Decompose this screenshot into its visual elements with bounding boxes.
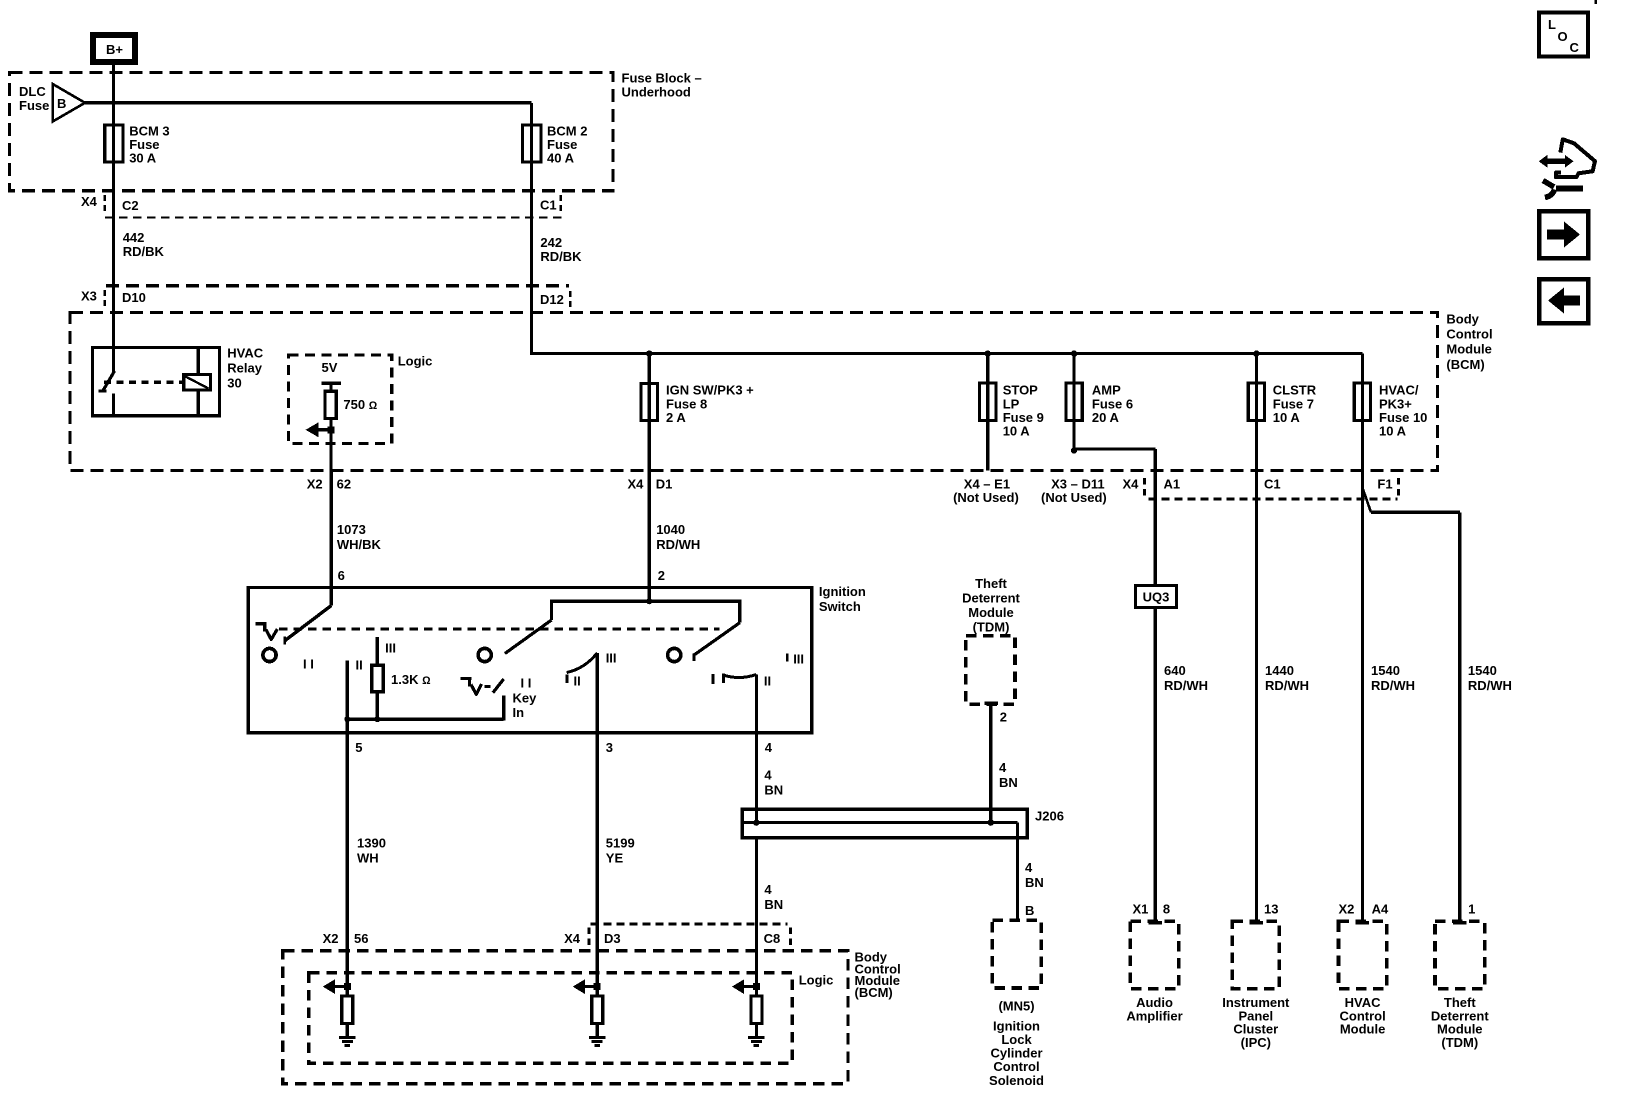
- svg-text:X2: X2: [307, 477, 323, 492]
- ground BCM D3: [589, 1038, 606, 1046]
- svg-text:62: 62: [337, 477, 351, 492]
- svg-text:640: 640: [1164, 663, 1186, 678]
- wire AMP fuse elbow to A1: [1071, 447, 1155, 585]
- svg-text:(IPC): (IPC): [1241, 1035, 1271, 1050]
- fuse IGN SW/PK3+ Fuse 8 2A: [641, 354, 754, 471]
- svg-text:1.3K Ω: 1.3K Ω: [391, 672, 431, 687]
- svg-text:III: III: [793, 652, 804, 667]
- icon harness routing: [1539, 139, 1595, 197]
- svg-text:Deterrent: Deterrent: [962, 591, 1020, 606]
- svg-text:Logic: Logic: [398, 354, 433, 369]
- svg-text:RD/BK: RD/BK: [123, 244, 165, 259]
- ignition switch pole 2 blade: [505, 600, 552, 654]
- svg-text:(MN5): (MN5): [998, 999, 1034, 1014]
- icon arrow back: [1539, 279, 1588, 323]
- svg-text:(TDM): (TDM): [1441, 1035, 1478, 1050]
- connector X4 pin A1: [1123, 476, 1181, 497]
- ignition switch pole 1 contact ring: [263, 648, 276, 661]
- svg-text:RD/WH: RD/WH: [656, 537, 700, 552]
- wire TDM pin 2 4 BN: [991, 704, 1018, 822]
- wire pin 4: [755, 675, 758, 733]
- svg-text:1073: 1073: [337, 522, 366, 537]
- ignition switch key-in blade: [493, 679, 504, 693]
- connector X4 pin D1: [628, 477, 673, 492]
- wire contact II to pin 5: [347, 658, 362, 733]
- svg-text:J206: J206: [1035, 809, 1064, 824]
- svg-text:30 A: 30 A: [129, 151, 157, 166]
- main BCM feed bus wire: [532, 286, 1363, 355]
- svg-text:C: C: [1570, 40, 1580, 55]
- svg-text:In: In: [513, 705, 525, 720]
- svg-text:II: II: [356, 658, 363, 673]
- node 5V supply: [322, 360, 341, 391]
- connector X2 pin 62: [307, 477, 351, 492]
- connector X4 pin D3: [564, 928, 621, 947]
- svg-text:B: B: [1025, 903, 1034, 918]
- wire pin 3: [597, 651, 616, 733]
- svg-text:(Not Used): (Not Used): [953, 490, 1019, 505]
- svg-text:X4: X4: [81, 194, 98, 209]
- svg-text:HVAC: HVAC: [227, 346, 263, 361]
- svg-text:Relay: Relay: [227, 361, 262, 376]
- svg-text:Body: Body: [1446, 312, 1479, 327]
- logic dashed box bottom: [309, 973, 834, 1064]
- svg-text:6: 6: [338, 568, 345, 583]
- svg-text:DLC: DLC: [19, 84, 46, 99]
- svg-text:56: 56: [354, 931, 368, 946]
- svg-text:C1: C1: [540, 198, 557, 213]
- wire 1540 RD/WH label HVAC: [1371, 663, 1415, 693]
- ground BCM 56: [339, 1038, 356, 1046]
- fuse HVAC/PK3+ Fuse 10 10A: [1354, 354, 1427, 922]
- svg-text:1: 1: [1468, 902, 1475, 917]
- svg-text:13: 13: [1264, 902, 1278, 917]
- connector pin F1 BCM: [1377, 476, 1398, 497]
- resistor 750 ohm: [325, 391, 378, 418]
- label MN5 ignition lock cylinder control solenoid: [989, 999, 1044, 1089]
- svg-text:2: 2: [1000, 710, 1007, 725]
- connector X3-D11 not used: [1041, 476, 1107, 505]
- svg-text:10 A: 10 A: [1273, 410, 1301, 425]
- svg-text:Ignition: Ignition: [819, 584, 866, 599]
- svg-text:10 A: 10 A: [1379, 424, 1407, 439]
- wire D10 into relay: [112, 286, 115, 373]
- svg-text:4: 4: [764, 768, 772, 783]
- svg-text:750 Ω: 750 Ω: [343, 397, 377, 412]
- fuse STOP LP Fuse 9 10A: [980, 354, 1044, 471]
- wire 242 RD/BK: [532, 191, 583, 286]
- svg-text:Control: Control: [1446, 327, 1492, 342]
- svg-text:Module: Module: [1446, 342, 1492, 357]
- connector X3 heavy dashed strip: [106, 284, 569, 288]
- svg-text:Switch: Switch: [819, 599, 861, 614]
- contact arc to pin 3: [567, 653, 598, 689]
- svg-text:5: 5: [355, 740, 362, 755]
- svg-text:1540: 1540: [1371, 663, 1400, 678]
- svg-text:(TDM): (TDM): [973, 620, 1010, 635]
- svg-text:4: 4: [765, 740, 773, 755]
- ignition switch box: [248, 584, 866, 733]
- svg-text:I I: I I: [303, 657, 314, 672]
- body control module BCM dashed box: [70, 313, 1438, 471]
- label body control module BCM: [1446, 312, 1492, 372]
- svg-text:Solenoid: Solenoid: [989, 1073, 1044, 1088]
- connector X2 pin 56: [323, 931, 369, 946]
- node B+ battery terminal: [93, 35, 135, 62]
- svg-text:BN: BN: [999, 775, 1018, 790]
- module instrument panel cluster dashed box: [1222, 921, 1290, 1050]
- resistor 1.3K ohm: [372, 637, 431, 719]
- svg-text:O: O: [1558, 29, 1568, 44]
- resistor BCM pull-down C8: [751, 987, 762, 1037]
- node junction AMP fuse: [1071, 350, 1077, 356]
- icon LOC box: [1539, 0, 1596, 57]
- wire 4 BN J206 to MN5: [1018, 823, 1044, 921]
- node contacts I III right: [787, 652, 804, 667]
- svg-text:40 A: 40 A: [547, 151, 575, 166]
- svg-text:III: III: [385, 641, 396, 656]
- svg-text:X3: X3: [81, 289, 97, 304]
- DLC fuse triangle symbol: [19, 84, 85, 122]
- splice J206: [742, 809, 1064, 838]
- node junction CLSTR fuse: [1253, 350, 1259, 356]
- node logic input arrow D3: [573, 979, 601, 994]
- fuse BCM 3 30A: [105, 103, 170, 191]
- svg-text:1540: 1540: [1468, 663, 1497, 678]
- label fuse block: [622, 71, 702, 100]
- wire key-in bus: [344, 696, 503, 723]
- node logic input arrow C8: [732, 979, 760, 994]
- resistor BCM pull-down D3: [592, 987, 603, 1037]
- ground BCM C8: [748, 1038, 765, 1046]
- svg-text:10 A: 10 A: [1003, 424, 1031, 439]
- svg-text:X2: X2: [1339, 902, 1355, 917]
- svg-text:4: 4: [1025, 860, 1033, 875]
- ignition switch mechanical link dashed: [279, 627, 719, 630]
- connector dashed strip A1-F1: [1149, 497, 1398, 500]
- svg-text:30: 30: [227, 376, 241, 391]
- wire 1440 RD/WH label: [1265, 663, 1309, 693]
- svg-text:5V: 5V: [322, 360, 338, 375]
- svg-text:A4: A4: [1372, 902, 1389, 917]
- svg-text:L: L: [1548, 17, 1556, 32]
- svg-text:Amplifier: Amplifier: [1126, 1008, 1182, 1023]
- svg-text:(BCM): (BCM): [1446, 357, 1484, 372]
- module HVAC control module dashed box: [1339, 921, 1387, 1036]
- svg-text:(Not Used): (Not Used): [1041, 490, 1107, 505]
- svg-text:442: 442: [123, 230, 145, 245]
- wire 1540 RD/WH label TDM: [1468, 663, 1512, 693]
- fuse block underhood dashed box: [9, 72, 613, 190]
- svg-text:X4: X4: [1123, 476, 1140, 491]
- wire 4 BN pin 4 to J206: [756, 733, 783, 823]
- relay HVAC Relay 30: [93, 346, 264, 416]
- svg-text:WH/BK: WH/BK: [337, 537, 382, 552]
- svg-text:4: 4: [764, 882, 772, 897]
- wire DLC to BCM2 drop: [85, 101, 532, 104]
- label theft deterrent module TDM top: [962, 576, 1020, 635]
- svg-text:YE: YE: [606, 851, 624, 866]
- wire 1390 WH pin 5: [347, 733, 386, 987]
- svg-text:X4 – E1: X4 – E1: [964, 476, 1010, 491]
- solenoid MN5 dashed box: [992, 920, 1041, 988]
- connector X2 pin A4: [1339, 902, 1389, 917]
- connector pin C1: [540, 195, 561, 213]
- svg-text:Fuse Block –: Fuse Block –: [622, 71, 702, 86]
- svg-text:F1: F1: [1377, 476, 1392, 491]
- svg-text:III: III: [606, 651, 617, 666]
- svg-text:Module: Module: [1340, 1022, 1386, 1037]
- svg-text:WH: WH: [357, 851, 379, 866]
- wire B+ to BCM 3 fuse: [112, 65, 115, 125]
- svg-text:RD/WH: RD/WH: [1371, 678, 1415, 693]
- fuse CLSTR Fuse 7 10A: [1248, 354, 1317, 922]
- svg-text:1440: 1440: [1265, 663, 1294, 678]
- svg-text:Theft: Theft: [975, 576, 1007, 591]
- svg-text:D3: D3: [604, 931, 621, 946]
- svg-text:4: 4: [999, 760, 1007, 775]
- node junction at B+ wire: [111, 100, 116, 105]
- svg-text:II: II: [574, 674, 581, 689]
- connector X3 pin D10: [81, 289, 146, 308]
- wire 1073 WH/BK: [331, 471, 381, 606]
- svg-text:1040: 1040: [656, 522, 685, 537]
- svg-text:BN: BN: [1025, 875, 1044, 890]
- svg-text:D10: D10: [122, 290, 146, 305]
- module TDM dashed box top: [966, 636, 1015, 705]
- svg-text:RD/BK: RD/BK: [540, 249, 582, 264]
- svg-text:Fuse: Fuse: [19, 98, 49, 113]
- svg-text:X4: X4: [564, 931, 581, 946]
- node logic junction with arrow: [306, 422, 335, 437]
- svg-text:D12: D12: [540, 292, 564, 307]
- module audio amplifier dashed box: [1126, 921, 1182, 1023]
- connector X4 pin C2: [81, 194, 139, 213]
- node contacts I I pole 1: [303, 657, 314, 672]
- ignition switch pole 3 contact ring: [668, 648, 681, 661]
- wire 5199 YE pin 3: [597, 733, 635, 987]
- connector pin C8: [764, 928, 791, 947]
- connector UQ3 option box: [1136, 586, 1177, 608]
- connector X1 pin 8: [1133, 902, 1171, 917]
- svg-text:A1: A1: [1164, 476, 1181, 491]
- ignition switch pole 2 contact ring: [478, 648, 491, 661]
- svg-text:Logic: Logic: [799, 973, 834, 988]
- svg-text:RD/WH: RD/WH: [1265, 678, 1309, 693]
- svg-text:Key: Key: [513, 691, 538, 706]
- svg-text:B+: B+: [106, 42, 123, 57]
- node logic input arrow 56: [323, 979, 351, 994]
- ignition switch pole 3 blade: [694, 600, 740, 661]
- svg-text:20 A: 20 A: [1092, 410, 1120, 425]
- svg-text:BN: BN: [764, 897, 783, 912]
- svg-text:8: 8: [1163, 902, 1170, 917]
- svg-text:X3 – D11: X3 – D11: [1051, 476, 1105, 491]
- connector X4 dashed strip D3-C8: [591, 922, 788, 925]
- ignition switch pole 1 blade: [285, 606, 332, 645]
- svg-text:RD/WH: RD/WH: [1468, 678, 1512, 693]
- label key in: [513, 691, 538, 721]
- svg-text:5199: 5199: [606, 836, 635, 851]
- svg-text:X1: X1: [1133, 902, 1149, 917]
- svg-text:C8: C8: [764, 931, 781, 946]
- wire branch F1 to TDM: [1363, 489, 1460, 921]
- ignition switch feed bus pin 2: [552, 598, 740, 604]
- svg-text:2 A: 2 A: [666, 410, 686, 425]
- svg-text:(BCM): (BCM): [855, 985, 893, 1000]
- svg-text:BN: BN: [764, 783, 783, 798]
- connector X4-E1 not used: [953, 476, 1019, 505]
- wire 442 RD/BK: [113, 191, 164, 286]
- svg-text:I I: I I: [521, 676, 532, 691]
- logic dashed box with 750 ohm pull-up: [289, 354, 433, 444]
- wire 4 BN J206 to C8: [756, 838, 783, 987]
- fuse AMP Fuse 6 20A: [1066, 354, 1133, 451]
- svg-text:3: 3: [606, 740, 613, 755]
- svg-text:Module: Module: [968, 605, 1014, 620]
- body control module BCM bottom dashed box: [283, 950, 901, 1084]
- svg-text:UQ3: UQ3: [1143, 590, 1170, 605]
- wire 1040 RD/WH: [649, 471, 700, 602]
- wire resistor to X2 62: [330, 418, 333, 470]
- svg-text:C2: C2: [122, 198, 139, 213]
- svg-text:Control: Control: [993, 1059, 1039, 1074]
- svg-text:II: II: [764, 674, 771, 689]
- svg-text:B: B: [57, 96, 66, 111]
- fuse BCM 2 40A: [523, 103, 588, 191]
- svg-text:242: 242: [540, 235, 562, 250]
- svg-text:C1: C1: [1264, 476, 1281, 491]
- resistor BCM pull-down 56: [342, 987, 353, 1037]
- svg-text:Underhood: Underhood: [622, 85, 691, 100]
- ignition switch pole 1 pivot symbol: [256, 623, 278, 640]
- module theft deterrent module dashed box bottom: [1431, 921, 1489, 1050]
- ignition switch key-in pivot symbol: [461, 677, 491, 694]
- wire 640 RD/WH: [1155, 608, 1208, 922]
- contact arc to pin 4: [713, 673, 771, 688]
- svg-text:D1: D1: [656, 477, 673, 492]
- svg-text:X2: X2: [323, 931, 339, 946]
- svg-text:X4: X4: [628, 477, 645, 492]
- connector X4 dashed strip: [105, 217, 562, 219]
- connector pin D12: [540, 291, 570, 308]
- svg-text:2: 2: [658, 568, 665, 583]
- svg-text:1390: 1390: [357, 836, 386, 851]
- svg-text:RD/WH: RD/WH: [1164, 678, 1208, 693]
- node junction IGN fuse: [646, 350, 652, 356]
- icon arrow next: [1539, 211, 1588, 258]
- node junction STOP fuse: [985, 350, 991, 356]
